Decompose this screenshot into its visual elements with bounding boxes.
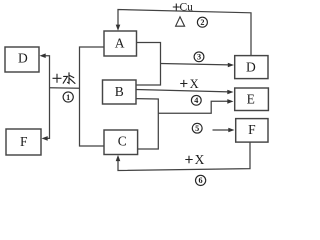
svg-text:B: B xyxy=(115,84,124,99)
svg-text:A: A xyxy=(115,35,125,50)
svg-text:3: 3 xyxy=(197,53,201,62)
svg-text:1: 1 xyxy=(66,93,70,102)
svg-text:D: D xyxy=(246,59,256,74)
svg-text:F: F xyxy=(248,122,256,137)
svg-text:4: 4 xyxy=(194,96,198,105)
svg-text:D: D xyxy=(18,51,28,66)
svg-text:F: F xyxy=(20,134,28,149)
svg-text:5: 5 xyxy=(195,124,199,133)
svg-text:Cu: Cu xyxy=(179,1,193,13)
svg-text:X: X xyxy=(195,152,205,167)
svg-text:X: X xyxy=(190,77,199,91)
svg-text:C: C xyxy=(118,133,127,148)
svg-text:2: 2 xyxy=(200,18,204,27)
svg-text:E: E xyxy=(247,91,255,106)
svg-text:6: 6 xyxy=(199,176,203,185)
